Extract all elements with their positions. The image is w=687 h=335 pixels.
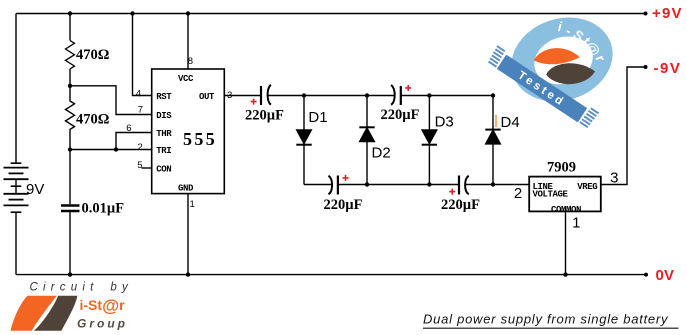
wire left battery top [15, 14, 17, 164]
diode D1 [303, 96, 305, 131]
wire top rail [16, 13, 646, 15]
wire bottom row D2-D3 [367, 184, 429, 186]
svg-text:0.01µF: 0.01µF [82, 201, 125, 217]
wire C1 to D1 node [268, 95, 304, 97]
wire top rail D1-D2 [304, 95, 367, 97]
footer i-St@r logo swoosh [11, 296, 78, 331]
svg-text:OUT: OUT [199, 92, 215, 102]
capacitor C3 plates [329, 176, 333, 195]
svg-text:TRI: TRI [156, 146, 171, 156]
C1 polarity plus [251, 99, 257, 105]
wire R1 drop [69, 14, 71, 41]
svg-text:1: 1 [190, 199, 195, 210]
capacitor C5 0.01uF plates [61, 206, 80, 212]
battery BT1 [4, 163, 29, 212]
svg-text:470Ω: 470Ω [76, 47, 109, 63]
svg-text:RST: RST [156, 92, 172, 102]
wire pin8 VCC drop [187, 14, 189, 70]
diode D4 [492, 96, 494, 130]
svg-text:+9V: +9V [652, 5, 683, 22]
wire THR branch [116, 133, 152, 150]
capacitor C1 plates [260, 86, 262, 105]
diode D2 [366, 96, 368, 128]
svg-text:VCC: VCC [178, 74, 194, 84]
stray yellow tick near D4 [495, 115, 497, 128]
wire bottom row D1-C3 [304, 184, 332, 186]
svg-text:3: 3 [227, 90, 232, 101]
resistor R2 [66, 86, 75, 150]
svg-text:6: 6 [126, 123, 131, 134]
capacitor C2 plates [391, 85, 395, 105]
svg-text:220µF: 220µF [381, 107, 420, 123]
svg-text:0V: 0V [656, 267, 675, 284]
svg-text:8: 8 [188, 56, 193, 67]
svg-text:i-St@r: i-St@r [80, 296, 126, 316]
badge ring [500, 5, 623, 114]
svg-text:7: 7 [138, 105, 143, 116]
svg-text:D2: D2 [372, 145, 391, 162]
svg-text:3: 3 [610, 170, 618, 187]
svg-text:VREG: VREG [577, 182, 597, 192]
wire OUT pin3 [224, 95, 260, 97]
node -9V terminal [644, 65, 648, 69]
svg-text:Circuit by: Circuit by [30, 281, 133, 293]
badge swoosh logo [534, 48, 595, 84]
wire CON stub [142, 167, 152, 169]
svg-text:555: 555 [183, 129, 217, 149]
wire 7909 COMMON pin1 to bottom rail [565, 211, 567, 274]
wire pin1 GND drop [187, 194, 189, 275]
svg-text:CON: CON [156, 164, 171, 174]
svg-text:Dual power supply from single: Dual power supply from single battery [423, 312, 669, 327]
node 0V terminal [644, 273, 648, 277]
svg-text:9V: 9V [26, 181, 44, 198]
capacitor C4 plates [458, 176, 460, 195]
wire bottom row D3-C4 [429, 184, 458, 186]
svg-text:VOLTAGE: VOLTAGE [533, 189, 569, 199]
svg-text:DIS: DIS [156, 111, 172, 121]
svg-text:220µF: 220µF [324, 197, 363, 213]
svg-text:220µF: 220µF [441, 197, 480, 213]
wire RST drop [133, 14, 152, 96]
node +9V terminal [644, 12, 648, 16]
svg-text:-9V: -9V [654, 60, 682, 77]
wire top rail D3-D4 [429, 95, 493, 97]
svg-text:1: 1 [572, 214, 580, 231]
svg-text:Group: Group [77, 316, 128, 330]
IC U1 555 box [152, 69, 225, 194]
wire C4 to 7909 pin2 [466, 184, 529, 186]
svg-text:2: 2 [138, 142, 143, 153]
wire 7909 VREG pin3 to -9V [601, 67, 646, 185]
badge ring text i-St@r [556, 19, 608, 64]
wire top rail D2-C2 [367, 95, 394, 97]
C4 polarity plus [449, 189, 455, 195]
svg-text:2: 2 [514, 185, 522, 202]
IC U2 7909 box [529, 177, 601, 212]
C3 polarity plus [343, 175, 349, 181]
wire C5 to bottom rail [69, 212, 71, 274]
svg-text:D1: D1 [308, 109, 327, 126]
wire bottom rail [16, 274, 646, 276]
i-St@r tested badge [486, 5, 623, 129]
resistor R1 [66, 41, 75, 69]
svg-text:470Ω: 470Ω [76, 112, 109, 128]
svg-text:4: 4 [136, 88, 141, 99]
svg-text:D4: D4 [501, 114, 520, 131]
svg-text:THR: THR [156, 129, 172, 139]
svg-text:5: 5 [137, 160, 142, 171]
wire battery bottom to 0V rail [15, 213, 17, 275]
diode D3 [428, 96, 430, 131]
svg-text:220µF: 220µF [245, 108, 284, 124]
badge ribbon Tested [486, 46, 598, 129]
svg-text:7909: 7909 [547, 160, 576, 176]
C2 polarity plus [405, 85, 411, 91]
wire R1 to node [69, 69, 71, 86]
svg-text:GND: GND [178, 184, 194, 194]
wire node to DIS [70, 86, 152, 115]
wire C2 to D3 [401, 95, 429, 97]
svg-text:D3: D3 [435, 114, 454, 131]
wire TRI row [70, 149, 152, 151]
wire C3 to D2 bottom [338, 184, 367, 186]
wire node to cap C5 [69, 150, 71, 205]
